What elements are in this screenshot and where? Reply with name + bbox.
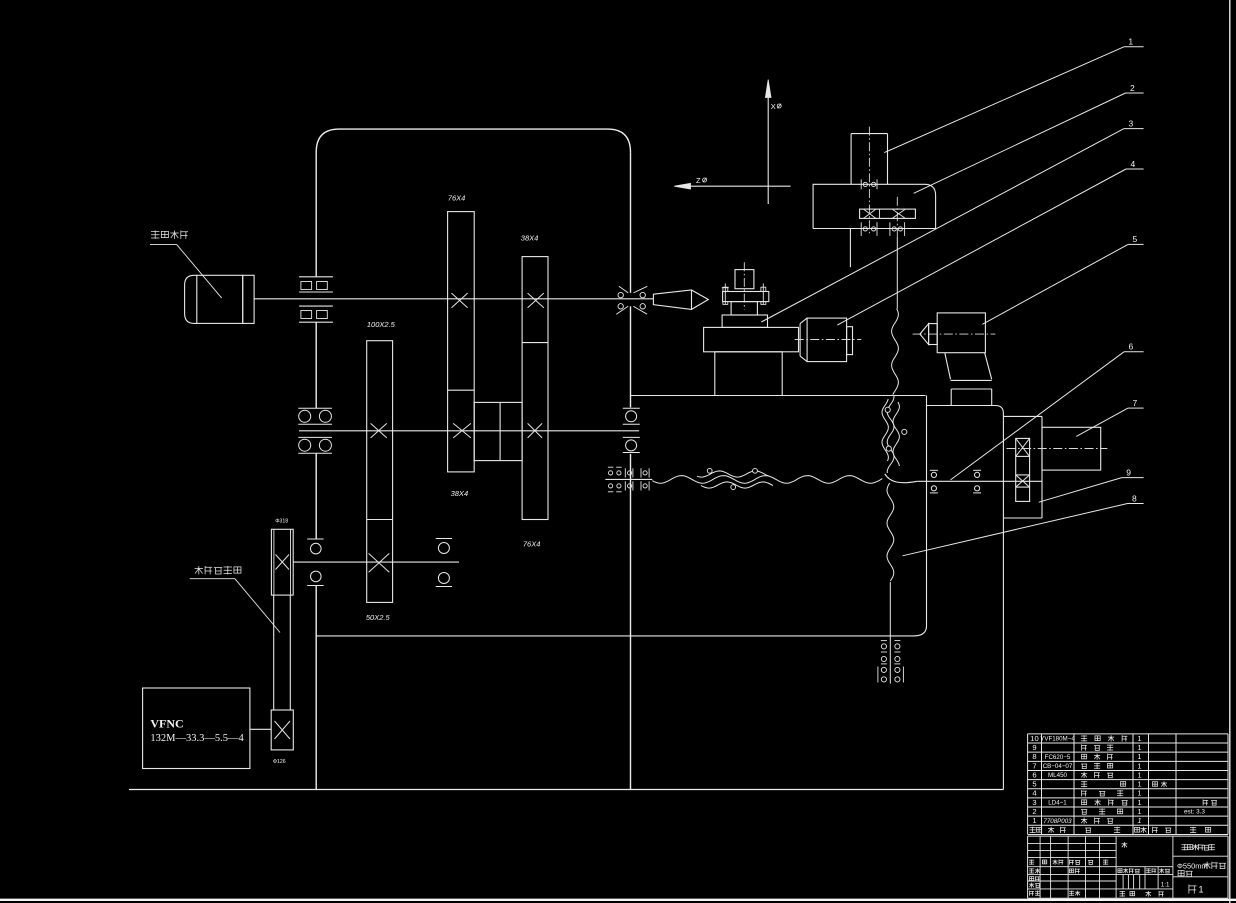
svg-text:1: 1 — [1138, 780, 1142, 789]
svg-text:1:1: 1:1 — [1161, 882, 1170, 889]
svg-text:1: 1 — [1199, 885, 1204, 895]
svg-text:76X4: 76X4 — [448, 193, 466, 202]
svg-text:X: X — [771, 102, 776, 111]
svg-text:3: 3 — [1129, 118, 1134, 128]
svg-text:76X4: 76X4 — [523, 539, 541, 548]
svg-text:8: 8 — [1032, 752, 1036, 761]
svg-text:50X2.5: 50X2.5 — [366, 613, 391, 622]
svg-text:9: 9 — [1126, 467, 1131, 477]
svg-text:8: 8 — [1132, 493, 1137, 503]
svg-text:4: 4 — [1032, 789, 1036, 798]
svg-text:2: 2 — [1032, 807, 1036, 816]
svg-text:ML450: ML450 — [1048, 772, 1067, 779]
svg-text:100X2.5: 100X2.5 — [367, 320, 396, 329]
svg-text:Φ550mm: Φ550mm — [1177, 862, 1208, 871]
svg-text:7: 7 — [1032, 761, 1036, 770]
svg-text:1: 1 — [1138, 734, 1142, 743]
svg-text:1: 1 — [1032, 816, 1036, 825]
svg-text:4: 4 — [1131, 159, 1136, 169]
svg-text:1: 1 — [1138, 752, 1142, 761]
svg-text:FC620−5: FC620−5 — [1045, 754, 1071, 761]
svg-text:1: 1 — [1138, 816, 1142, 825]
svg-text:6: 6 — [1129, 342, 1134, 352]
svg-text:1: 1 — [1138, 807, 1142, 816]
svg-text:2: 2 — [1130, 83, 1135, 93]
svg-text:1: 1 — [1138, 743, 1142, 752]
svg-text:Φ126: Φ126 — [273, 759, 286, 765]
svg-text:LD4−1: LD4−1 — [1048, 800, 1067, 807]
svg-text:7: 7 — [1133, 398, 1138, 408]
svg-text:5: 5 — [1133, 234, 1138, 244]
svg-text:1: 1 — [1138, 761, 1142, 770]
svg-text:38X4: 38X4 — [521, 233, 539, 242]
svg-text:Φ318: Φ318 — [275, 518, 288, 524]
svg-text:VFNC: VFNC — [150, 717, 183, 731]
svg-text:est: 3.3: est: 3.3 — [1184, 809, 1205, 816]
svg-text:1: 1 — [1138, 798, 1142, 807]
svg-text:10: 10 — [1030, 734, 1038, 743]
svg-text:1: 1 — [1138, 789, 1142, 798]
svg-text:7708P003: 7708P003 — [1043, 818, 1072, 825]
svg-text:132M—33.3—5.5—4: 132M—33.3—5.5—4 — [150, 733, 244, 744]
svg-text:1: 1 — [1128, 37, 1133, 47]
svg-text:Z: Z — [696, 176, 701, 185]
svg-text:38X4: 38X4 — [451, 489, 469, 498]
svg-text:YVF180M−4: YVF180M−4 — [1040, 736, 1075, 743]
svg-text:3: 3 — [1032, 798, 1036, 807]
svg-text:CB−04−07: CB−04−07 — [1043, 763, 1073, 770]
svg-text:9: 9 — [1032, 743, 1036, 752]
svg-text:5: 5 — [1032, 780, 1036, 789]
svg-text:1: 1 — [1138, 770, 1142, 779]
svg-text:6: 6 — [1032, 770, 1036, 779]
